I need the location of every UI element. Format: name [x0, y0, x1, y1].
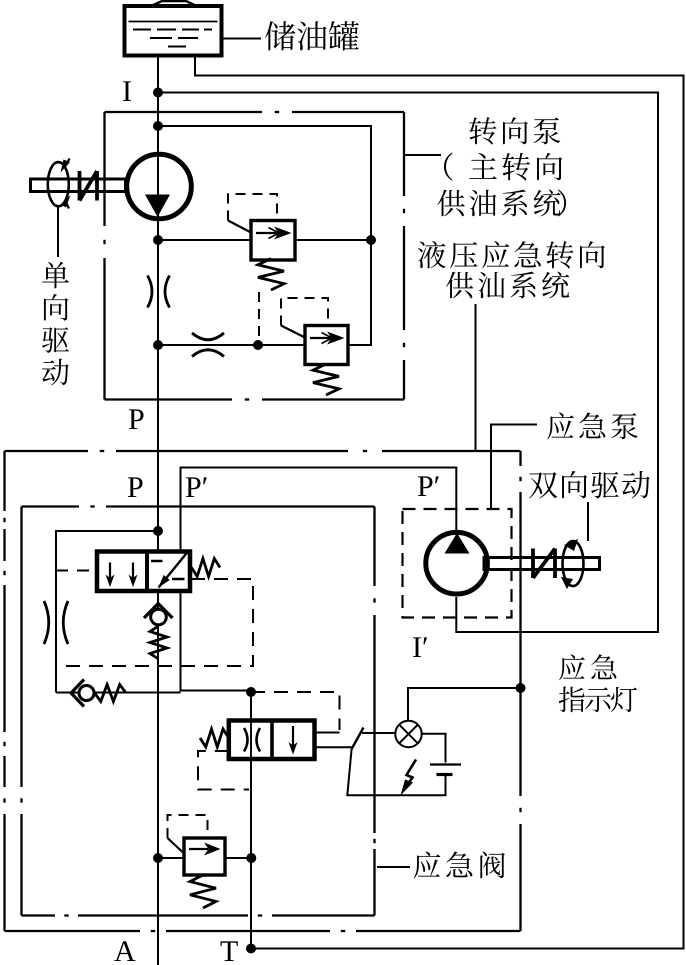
wire: relief return header	[158, 126, 371, 345]
wire: I line to emergency pump suction I'	[158, 93, 658, 633]
right cell arrow down	[292, 726, 294, 747]
emergency pump dashed enclosure	[403, 509, 512, 618]
node P&#8242; (at pump)	[418, 476, 433, 496]
relief valve (emergency circuit)	[153, 853, 163, 863]
coupling symbol	[80, 171, 98, 201]
indicator lamp	[395, 721, 421, 747]
lower pilot valve (2/2)	[229, 721, 315, 760]
boundary box: emergency steering supply system (outer)	[5, 450, 89, 452]
solenoid pictogram	[151, 552, 188, 588]
electric actuation arrow (lightning)	[405, 760, 417, 790]
switch blade	[352, 728, 364, 750]
venturi restrictor	[192, 333, 224, 357]
wire: P&#8242; line to T column	[181, 591, 252, 691]
label pointer 单向驱动	[57, 206, 59, 257]
RV2 pilot line (dashed)	[281, 326, 305, 338]
node T	[221, 941, 238, 961]
pilot line from T junction to lower valve (dashed)	[251, 692, 340, 730]
label 双向驱动 + pointer	[587, 502, 589, 541]
relief valve RV2	[305, 326, 348, 365]
valve left port (dashed stub to bypass)	[56, 570, 97, 572]
wire: second header	[153, 340, 163, 350]
label 液压应急转向供汕系统	[418, 241, 605, 298]
label 应急阀 + pointer	[377, 866, 410, 868]
drive shaft (one-way drive)	[31, 179, 126, 192]
pump (main steering pump)	[127, 154, 192, 219]
label 单向驱动 (vertical)	[42, 262, 69, 386]
wire: pump outlet header	[153, 235, 163, 245]
label 应急指示灯	[559, 654, 637, 712]
relief spring	[190, 875, 216, 908]
node I&#8242;	[413, 637, 421, 657]
wire: blade to lamp	[362, 732, 395, 734]
lower valve pilot (dashed, senses A line)	[198, 751, 249, 790]
wire: P&#8242; feed line from emergency pump	[181, 468, 457, 552]
solenoid pilot line (dashed)	[56, 579, 253, 666]
label 转向泵（主转向供油系统）	[404, 154, 441, 156]
label 应急泵 + pointer	[491, 425, 537, 510]
emergency pump	[426, 532, 488, 594]
label 储油罐	[222, 38, 262, 40]
wire: tank right outlet to big return loop	[195, 56, 684, 949]
wire: T column	[250, 692, 252, 949]
RV1 spring	[258, 259, 284, 291]
switch stub from valve	[315, 746, 352, 748]
relief pilot (dashed)	[168, 838, 185, 854]
boundary box: emergency valve assembly	[22, 505, 80, 507]
check valve (bypass return, horizontal)	[56, 692, 181, 694]
battery cell	[430, 763, 461, 765]
left cell orifice )(	[244, 728, 260, 752]
wire: bypass branch	[153, 526, 163, 536]
wire: battery to bottom return	[347, 749, 445, 795]
coupling symbol	[533, 549, 555, 579]
wire: lamp top to supply column	[408, 688, 521, 721]
lower valve spring (left)	[200, 729, 229, 747]
node P (top)	[129, 409, 144, 429]
node P&#8242; (left)	[186, 477, 201, 497]
relief valve RV1	[251, 221, 295, 261]
rotation arrow (two-way)	[563, 541, 584, 586]
node P (middle)	[128, 477, 143, 497]
wire through valve left cell	[250, 722, 252, 758]
orifice )( on bypass	[44, 601, 68, 644]
node I	[123, 81, 131, 101]
lower valve right port stub	[315, 732, 340, 734]
label pointer down to emergency system box	[475, 304, 477, 451]
emergency pump drive shaft (two-way drive)	[484, 558, 600, 570]
wire: tank to pump (main line P/I)	[157, 56, 159, 965]
orifice )( on P line	[148, 276, 170, 308]
RV2 spring	[313, 364, 339, 395]
solenoid valve spring (right)	[192, 559, 221, 577]
RV1 drain (dashed)	[258, 292, 260, 343]
boundary box: steering pump (main) assembly	[105, 111, 263, 113]
rotation arrow (one-way)	[48, 162, 69, 206]
solenoid valve (2/2)	[97, 552, 190, 592]
check valve (below solenoid valve)	[151, 609, 167, 625]
node A	[114, 941, 135, 961]
wire: lamp to battery	[422, 734, 446, 763]
RV1 pilot line (dashed)	[228, 221, 251, 233]
oil tank 储油罐	[125, 6, 222, 56]
